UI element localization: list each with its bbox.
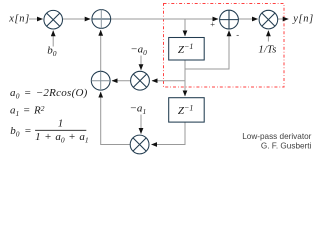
svg-text:+: + bbox=[210, 19, 216, 29]
svg-text:Low-pass derivator: Low-pass derivator bbox=[242, 132, 311, 141]
svg-text:x[n]: x[n] bbox=[8, 13, 29, 24]
svg-text:a0 = −2Rcos(O): a0 = −2Rcos(O) bbox=[10, 87, 88, 101]
svg-text:a1 = R2: a1 = R2 bbox=[10, 104, 45, 118]
svg-text:1/Ts: 1/Ts bbox=[258, 44, 277, 56]
svg-text:b0 =: b0 = bbox=[10, 125, 31, 139]
svg-text:G. F. Gusberti: G. F. Gusberti bbox=[261, 142, 312, 151]
svg-text:y[n]: y[n] bbox=[292, 14, 313, 25]
svg-text:-: - bbox=[236, 29, 239, 39]
svg-text:1: 1 bbox=[58, 118, 64, 130]
